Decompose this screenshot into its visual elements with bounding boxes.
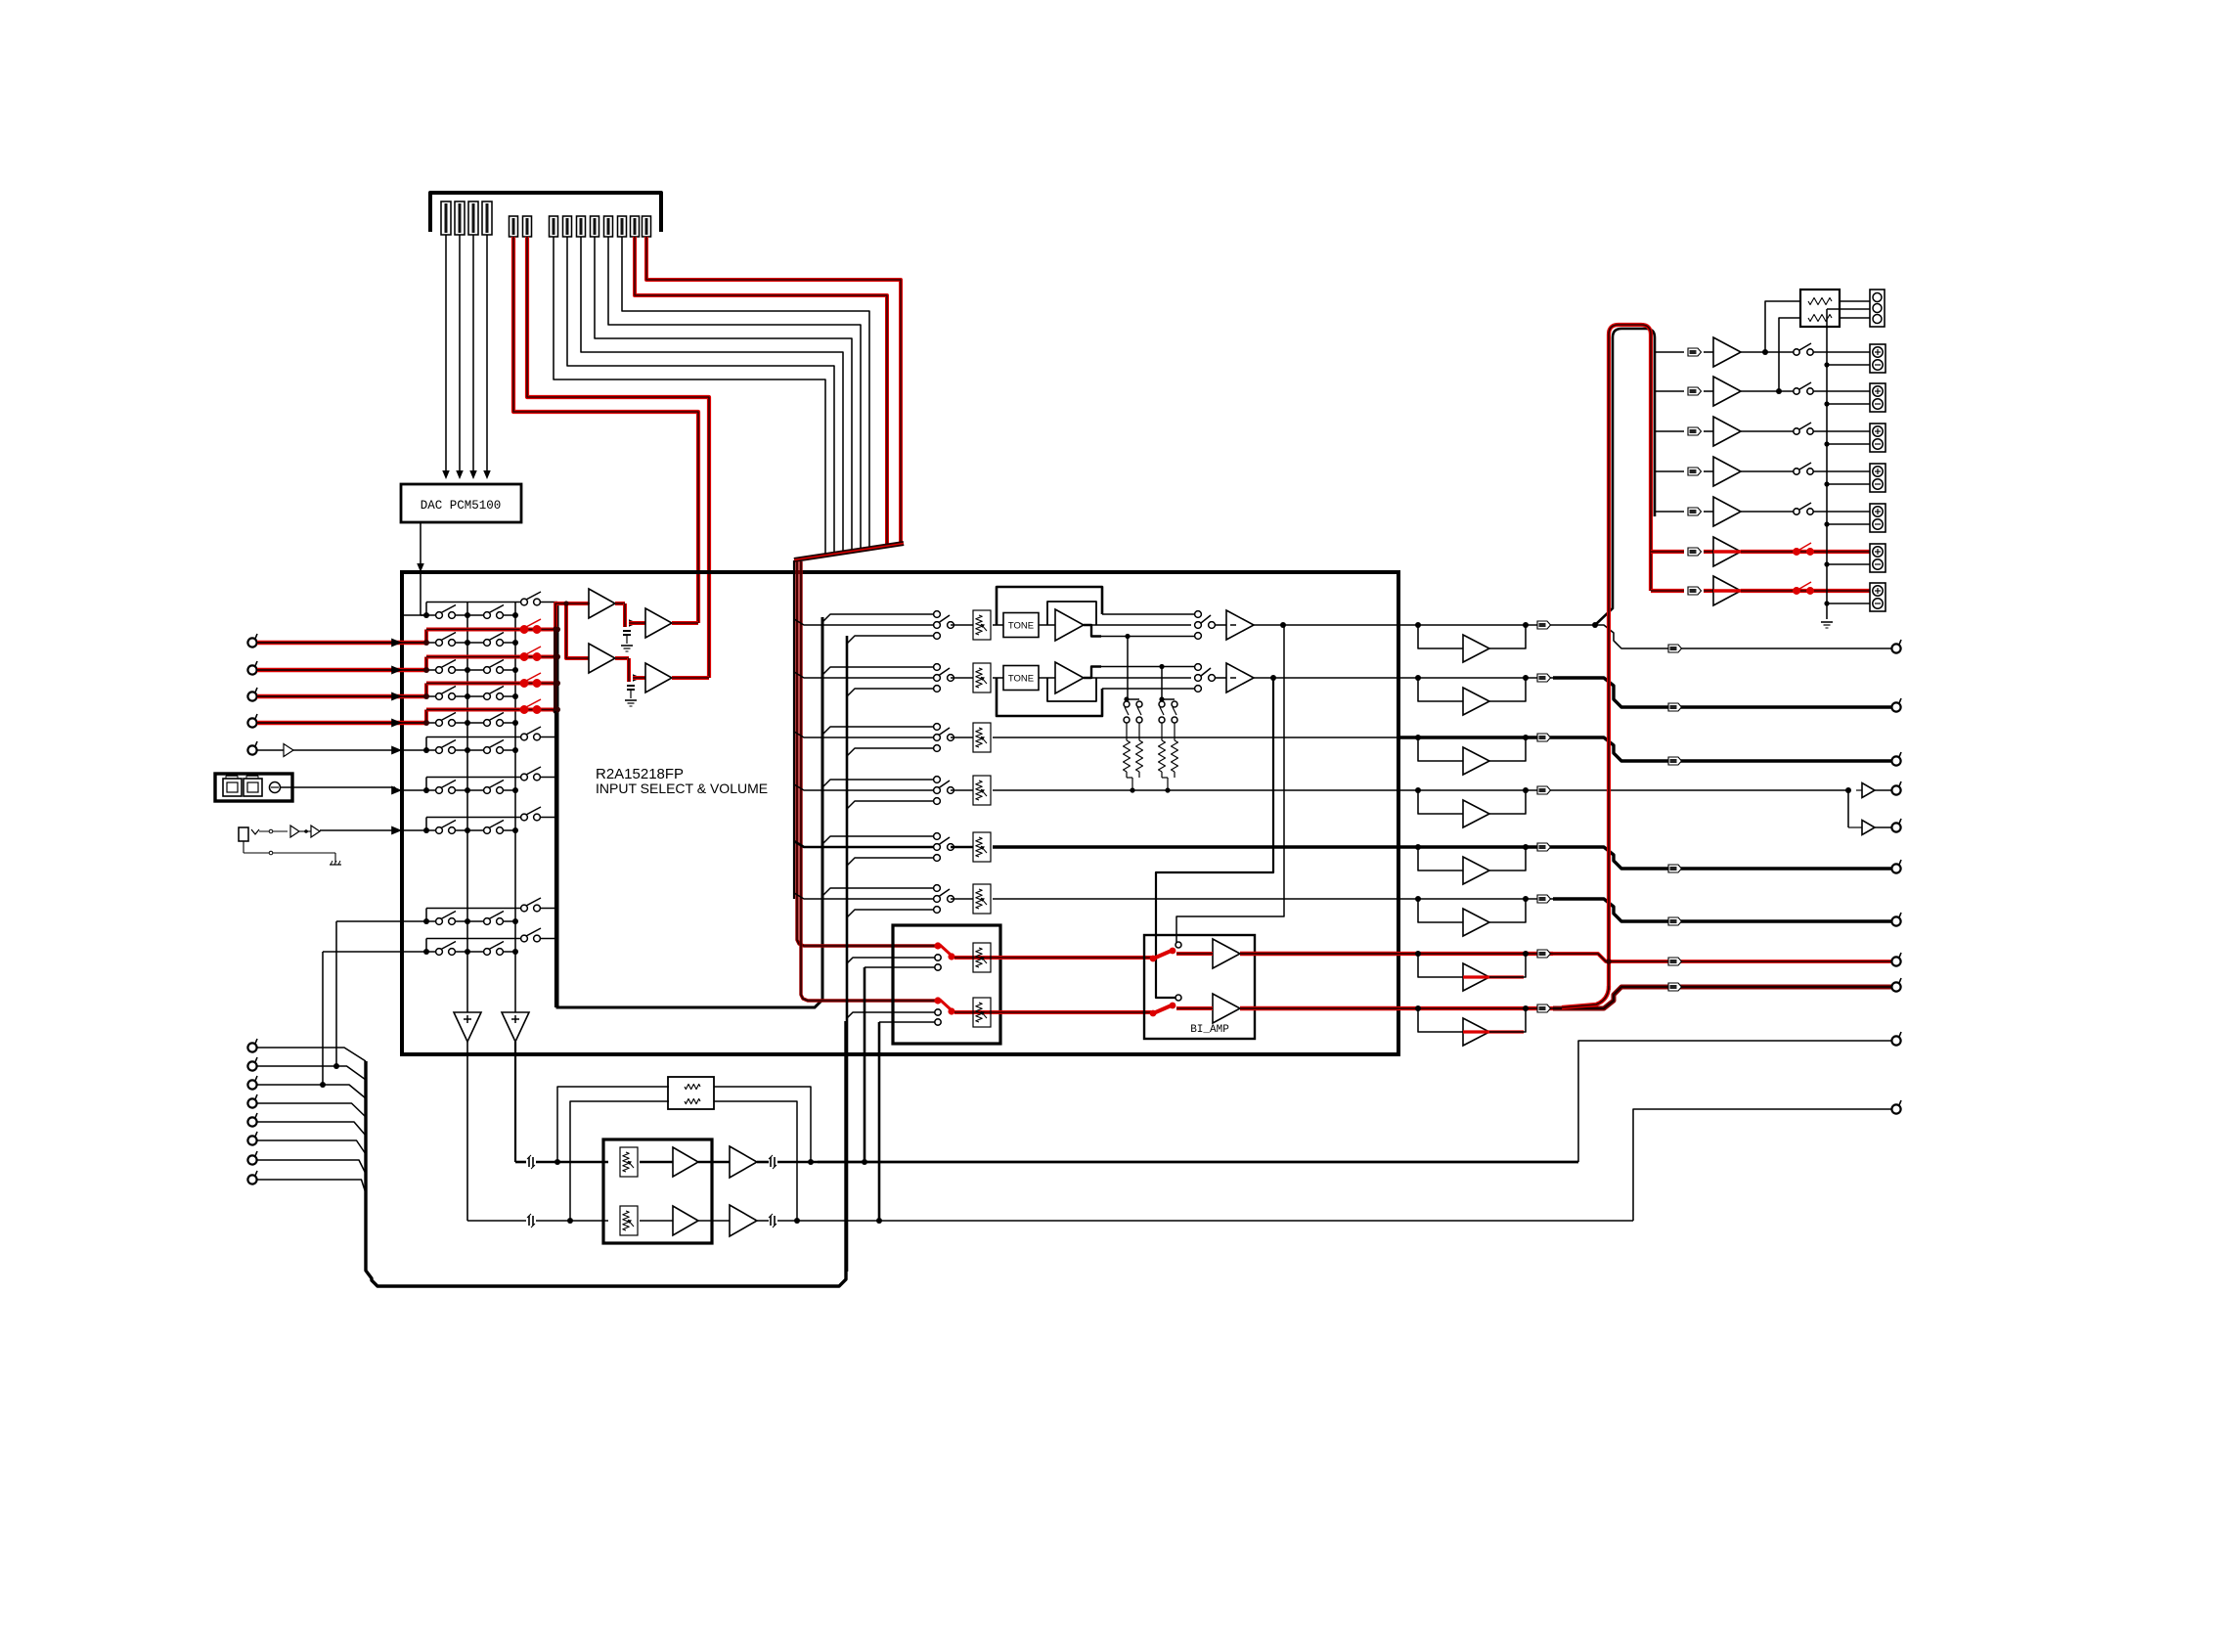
svg-text:INPUT SELECT & VOLUME: INPUT SELECT & VOLUME [596,781,768,796]
svg-text:TONE: TONE [1008,621,1034,632]
svg-text:BI_AMP: BI_AMP [1190,1024,1229,1036]
svg-text:DAC PCM5100: DAC PCM5100 [421,499,502,513]
svg-text:TONE: TONE [1008,674,1034,685]
